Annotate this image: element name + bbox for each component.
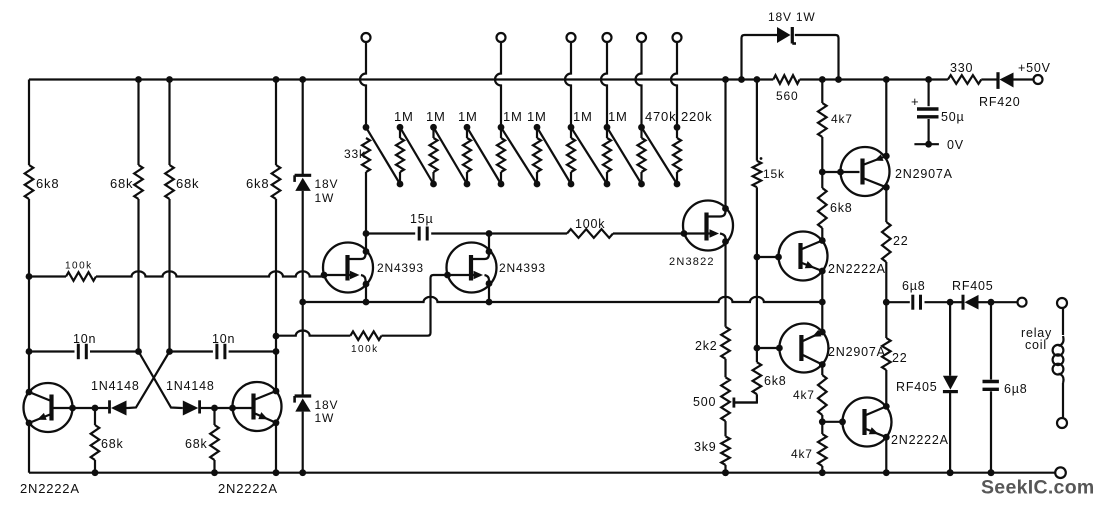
label 1M (394, 109, 414, 124)
resistor 1M ladder#5 (533, 127, 541, 184)
wire RF420-term (1014, 78, 1034, 80)
svg-text:33k: 33k (344, 147, 366, 161)
junction c1-10n (26, 348, 33, 355)
wire column4 mid (275, 336, 277, 391)
svg-text:68k: 68k (185, 437, 208, 451)
svg-text:2N2222A: 2N2222A (891, 433, 949, 447)
label 1N4148 left (91, 379, 140, 393)
label 50u (941, 110, 965, 124)
label 1M (573, 109, 593, 124)
svg-text:100k: 100k (65, 261, 93, 272)
junction top bus (135, 76, 142, 83)
junction c5-bus (299, 299, 306, 306)
junction F2 mid (486, 230, 493, 237)
resistor 1M ladder#4 (497, 127, 505, 184)
svg-text:2N4393: 2N4393 (499, 261, 546, 275)
label 2N2222A topright (828, 262, 886, 276)
junction ladder bottom #4 (498, 181, 505, 188)
wire 15k column lower (756, 257, 758, 348)
wire column5 zener1-bus (302, 191, 304, 302)
junction bottom bus (819, 469, 826, 476)
label 15u (410, 212, 434, 226)
svg-text:6µ8: 6µ8 (1004, 382, 1028, 396)
junction top bus (299, 76, 306, 83)
resistor 3k9 (721, 436, 730, 472)
junction F1 mid (363, 230, 370, 237)
wire RF405-terminal (991, 301, 1018, 303)
svg-text:100k: 100k (575, 217, 605, 231)
label 3k9 (694, 440, 717, 454)
junction top bus (722, 76, 729, 83)
label 1M (458, 109, 478, 124)
svg-text:18V: 18V (315, 177, 339, 191)
wire 15u to 100k (431, 232, 567, 234)
wire ladder diagonal #2 (400, 127, 434, 184)
svg-text:6k8: 6k8 (830, 201, 853, 215)
transistor Q6 2N2907A (776, 324, 828, 373)
junction bottom bus (988, 469, 995, 476)
svg-text:2N2907A: 2N2907A (828, 345, 886, 359)
svg-text:2N2907A: 2N2907A (895, 167, 953, 181)
svg-text:18V: 18V (315, 398, 339, 412)
junction bottom bus (211, 469, 218, 476)
speck (760, 157, 763, 160)
resistor 220k ladder#9 (673, 127, 681, 184)
label 4k7 top (831, 112, 853, 126)
svg-text:1M: 1M (573, 109, 593, 124)
capacitor 15u (419, 227, 427, 241)
junction ladder top #2 (430, 124, 437, 131)
wire ladder diagonal #1 (366, 127, 400, 184)
svg-text:1M: 1M (458, 109, 478, 124)
label 10n right (212, 332, 235, 346)
label 10n left (73, 332, 96, 346)
label 18V upper (315, 177, 339, 205)
node 0V (914, 141, 939, 148)
diode 1N4148 right (182, 400, 215, 415)
resistor 1M ladder#2 (430, 127, 438, 184)
junction ladder bottom #9 (674, 181, 681, 188)
label 1M (426, 109, 446, 124)
svg-text:15µ: 15µ (410, 212, 434, 226)
resistor 4k7 low (818, 422, 827, 473)
wire column5 upper (302, 80, 304, 176)
svg-text:4k7: 4k7 (793, 388, 815, 402)
resistor 100k bottom (350, 331, 381, 340)
wire relay top lead (1062, 308, 1064, 335)
label 100k mid (575, 217, 605, 231)
junction bottom bus (947, 469, 954, 476)
label 2N2222A left (20, 481, 80, 496)
junction ladder top #3 (464, 124, 471, 131)
capacitor 10n right (217, 344, 276, 359)
resistor 100k left (66, 272, 96, 281)
svg-text:68k: 68k (101, 437, 124, 451)
svg-text:3k9: 3k9 (694, 440, 717, 454)
junction ladder bottom #8 (638, 181, 645, 188)
svg-text:68k: 68k (176, 176, 199, 191)
resistor 470k ladder#8 (638, 127, 646, 184)
label 2N2907A mid (828, 345, 886, 359)
resistor 1M ladder#3 (463, 127, 471, 184)
zener diode 18V lower (295, 396, 312, 412)
svg-text:4k7: 4k7 (791, 447, 813, 461)
wire 18V diode loop (742, 35, 839, 80)
wire mid bus (303, 297, 823, 302)
svg-text:2N2222A: 2N2222A (828, 262, 886, 276)
svg-text:220k: 220k (681, 109, 712, 124)
terminal T6 (673, 33, 682, 42)
label 2N2222A right (218, 481, 278, 496)
wire Q2 emitter to bottom (275, 423, 277, 473)
svg-text:10n: 10n (73, 332, 96, 346)
resistor 22 lower (882, 302, 891, 406)
resistor 68k left-bias (91, 408, 100, 473)
terminal T4 (603, 33, 612, 42)
label 6u8 shunt (1004, 382, 1028, 396)
label 6k8 lower (764, 374, 787, 388)
svg-text:coil: coil (1025, 338, 1047, 352)
wire ladder diagonal #8 (607, 127, 642, 184)
label 2N3822 (669, 256, 715, 268)
svg-text:330: 330 (950, 61, 973, 75)
junction ladder bottom #3 (464, 181, 471, 188)
svg-text:2k2: 2k2 (695, 339, 718, 353)
transistor Q2 2N2222A right (215, 382, 282, 431)
transistor Q4 2N2907A (822, 147, 889, 196)
label 4k7 mid (793, 388, 815, 402)
wire ladder diagonal #3 (434, 127, 468, 184)
wire Q6 base (757, 347, 780, 349)
svg-text:2N2222A: 2N2222A (218, 481, 278, 496)
svg-text:1M: 1M (608, 109, 628, 124)
wire ladder diagonal #9 (642, 127, 678, 184)
wire 330-RF420 (981, 78, 996, 80)
label 1M (503, 109, 523, 124)
wire Q1 emitter to bottom (28, 423, 30, 473)
resistor 68k right-bias (210, 408, 219, 473)
label 68k left-bias (101, 437, 124, 451)
wire terminal T6 riser (671, 42, 677, 127)
junction top bus (819, 76, 826, 83)
label RF405 series (952, 279, 994, 293)
wire terminal T5 riser (636, 42, 642, 127)
junction base Q6 tap (754, 345, 761, 352)
resistor 33k (362, 138, 370, 172)
diode 18V 1W top (777, 27, 796, 44)
wire 6u8-RF405 (925, 299, 954, 306)
label 6k8 #1 (36, 176, 59, 191)
label 560 (776, 89, 798, 103)
wire output row (886, 301, 910, 303)
diode 1N4148 left (95, 400, 128, 415)
label RF420 (979, 95, 1021, 109)
resistor 100k mid (567, 229, 613, 238)
label 0V (947, 138, 964, 152)
junction top bus (754, 76, 761, 83)
svg-text:1M: 1M (426, 109, 446, 124)
junction c2-10n (135, 348, 142, 355)
junction CE output (883, 299, 890, 306)
svg-text:6k8: 6k8 (764, 374, 787, 388)
wire Q3 emitter to bus (821, 271, 823, 302)
label 2N2907A top (895, 167, 953, 181)
resistor 1M ladder#7 (603, 127, 611, 184)
svg-text:470k: 470k (645, 109, 676, 124)
junction base-right 68k (211, 405, 218, 412)
junction bottom bus (299, 469, 306, 476)
junction Q5 base node (819, 418, 826, 425)
svg-text:100k: 100k (351, 344, 379, 355)
junction bottom bus (722, 469, 729, 476)
label 22 lower (892, 351, 908, 365)
terminal +50V (1034, 75, 1043, 84)
terminal bottom right (1055, 467, 1066, 478)
resistor 4k7 top (818, 80, 827, 173)
svg-text:22: 22 (892, 351, 908, 365)
JFET U1 2N4393 (321, 243, 373, 293)
label 2k2 (695, 339, 718, 353)
label 4k7 low (791, 447, 813, 461)
wire relay bottom lead (1062, 383, 1064, 418)
terminal T5 (637, 33, 646, 42)
label 100k left (65, 261, 93, 272)
label 6k8 right (830, 201, 853, 215)
diode RF405 series (950, 295, 991, 310)
wire 15u lead (366, 232, 415, 234)
transistor Q1 2N2222A left (24, 383, 96, 432)
resistor 22 upper (882, 187, 891, 302)
resistor 2k2 (721, 327, 730, 378)
label 68k #1 (110, 176, 133, 191)
junction bottom bus (883, 469, 890, 476)
watermark SeekIC.com (981, 477, 1095, 499)
diode RF420 (998, 72, 1014, 89)
junction F2 bus (486, 299, 493, 306)
wire Q5 base (822, 421, 842, 423)
junction ladder top #5 (534, 124, 541, 131)
resistor 68k column2 (134, 80, 143, 352)
junction ladder top #7 (604, 124, 611, 131)
wire 50u top (927, 80, 929, 107)
junction ladder top #4 (498, 124, 505, 131)
svg-text:15k: 15k (763, 167, 785, 181)
junction 15k base tap (754, 254, 761, 261)
wire Q3 base (757, 256, 779, 258)
svg-text:1N4148: 1N4148 (91, 379, 140, 393)
resistor 330 (948, 75, 981, 84)
capacitor 50u (911, 94, 939, 117)
label 22 upper (893, 234, 909, 248)
junction top bus (738, 76, 745, 83)
svg-text:SeekIC.com: SeekIC.com (981, 477, 1095, 499)
wire JFET2 source (488, 284, 490, 303)
svg-text:68k: 68k (110, 176, 133, 191)
transistor Q5 2N2222A (839, 398, 891, 447)
svg-text:0V: 0V (947, 138, 964, 152)
junction ladder top #0 (363, 124, 370, 131)
wire 10n-left lead (29, 350, 75, 352)
wire JFET1 drain (365, 234, 367, 252)
resistor 1M ladder#1 (396, 127, 404, 184)
junction ladder top #9 (674, 124, 681, 131)
label 500 (693, 395, 716, 409)
resistor 6k8 lower (734, 348, 761, 403)
label 1M (608, 109, 628, 124)
label 6u8 series (902, 279, 926, 293)
junction 3k9 bottom (722, 469, 729, 476)
junction c4-10n (273, 348, 280, 355)
svg-text:560: 560 (776, 89, 798, 103)
label 6k8 #2 (246, 176, 269, 191)
label RF405 shunt (896, 380, 938, 394)
wire cross diagonal A (128, 352, 170, 409)
resistor 560 (773, 75, 799, 84)
wire ladder diagonal #4 (467, 127, 501, 184)
wire cross diagonal B (139, 352, 182, 409)
junction RF405 bottom (947, 469, 954, 476)
JFET U3 2N3822 (681, 201, 733, 251)
junction base-left 68k (92, 405, 99, 412)
junction c1-100k (26, 273, 33, 280)
capacitor 6u8 shunt (983, 302, 999, 473)
pot wiper (734, 398, 757, 408)
svg-text:RF405: RF405 (896, 380, 938, 394)
junction ladder top #8 (638, 124, 645, 131)
wire JFET2 gate bend (428, 275, 448, 336)
wire 10n-right lead (170, 350, 213, 352)
resistor 1M ladder#6 (567, 127, 575, 184)
label 220k (681, 109, 712, 124)
label 2N4393 #1 (377, 261, 424, 275)
label 2N2222A bottom (891, 433, 949, 447)
svg-text:2N3822: 2N3822 (669, 256, 715, 268)
junction ladder bottom #5 (534, 181, 541, 188)
svg-text:18V 1W: 18V 1W (768, 10, 816, 24)
junction F1 bus (363, 299, 370, 306)
wire 100k-bot lead (276, 331, 350, 336)
junction ladder bottom #2 (430, 181, 437, 188)
wire top supply bus (29, 78, 948, 80)
wire 100k to gate3 (613, 232, 684, 234)
svg-text:10n: 10n (212, 332, 235, 346)
terminal T1 (362, 33, 371, 42)
wire Q6 emitter to bus (821, 302, 823, 332)
junction top bus (273, 76, 280, 83)
wire 33k to 15u node (365, 172, 367, 234)
label 33k (344, 147, 366, 161)
label 470k (645, 109, 676, 124)
wire bottom bus (29, 472, 1055, 474)
label 18V lower (315, 398, 339, 425)
junction top bus (166, 76, 173, 83)
wire 2N3822 drain to top (724, 80, 726, 209)
svg-text:2N2222A: 2N2222A (20, 481, 80, 496)
svg-text:RF405: RF405 (952, 279, 994, 293)
diode RF405 shunt (943, 302, 958, 473)
junction 6u8 bottom (988, 469, 995, 476)
label 68k right-bias (185, 437, 208, 451)
resistor 6k8 column4 (272, 80, 281, 337)
wire column5 bus-zener2 (302, 302, 304, 396)
resistor 4k7 mid (818, 365, 827, 422)
label 2N4393 #2 (499, 261, 546, 275)
svg-text:22: 22 (893, 234, 909, 248)
label relay coil (1021, 326, 1052, 352)
resistor 68k column3 (165, 80, 174, 352)
svg-text:6k8: 6k8 (36, 176, 59, 191)
resistor 6k8 right (818, 172, 827, 241)
wire 100k-bot to bend (382, 335, 428, 337)
svg-text:4k7: 4k7 (831, 112, 853, 126)
label 1M (527, 109, 547, 124)
svg-text:50µ: 50µ (941, 110, 965, 124)
resistor 6k8 column1 (25, 80, 34, 277)
wire 2N3822 source down (724, 242, 726, 327)
wire ladder diagonal #7 (571, 127, 607, 184)
junction ladder bottom #1 (397, 181, 404, 188)
JFET U2 2N4393 (444, 243, 496, 293)
svg-text:6k8: 6k8 (246, 176, 269, 191)
transistor Q3 2N2222A (775, 232, 827, 281)
junction ladder bottom #6 (568, 181, 575, 188)
capacitor 6u8 series (913, 295, 921, 310)
wire Q5 emitter to bottom (885, 437, 887, 473)
label 68k #2 (176, 176, 199, 191)
label 1N4148 right (166, 379, 215, 393)
wire terminal T4 riser (601, 42, 607, 127)
junction mid bus end (819, 299, 826, 306)
wire ladder diagonal #5 (501, 127, 537, 184)
junction ladder bottom #7 (604, 181, 611, 188)
terminal T2 (497, 33, 506, 42)
svg-text:RF420: RF420 (979, 95, 1021, 109)
wire 50u bottom (927, 119, 929, 144)
svg-text:2N4393: 2N4393 (377, 261, 424, 275)
junction top bus (925, 76, 932, 83)
svg-text:500: 500 (693, 395, 716, 409)
wire column5 zener2-bot (302, 412, 304, 473)
terminal output (1018, 298, 1027, 307)
wire column1 mid (28, 277, 30, 393)
junction bottom bus (92, 469, 99, 476)
svg-text:+50V: +50V (1018, 61, 1051, 75)
terminal relay top (1057, 298, 1067, 308)
wire terminal T1 riser (360, 42, 366, 127)
potentiometer 500 (721, 377, 730, 436)
wire terminal T3 riser (565, 42, 571, 127)
junction bottom bus (273, 469, 280, 476)
label 100k bottom (351, 344, 379, 355)
svg-text:1W: 1W (315, 191, 335, 205)
wire terminal T2 riser (495, 42, 501, 127)
resistor 15k (753, 80, 762, 258)
junction out shunt (988, 299, 995, 306)
wire 100k-left to gate (96, 271, 324, 276)
junction c3-10n (166, 348, 173, 355)
wire Q4 emitter to top (885, 80, 887, 157)
label 18V 1W (768, 10, 816, 24)
wire JFET1 source (365, 284, 367, 302)
wire JFET2 drain (488, 234, 490, 252)
capacitor 10n left (78, 344, 138, 359)
junction top bus (835, 76, 842, 83)
label 330 (950, 61, 973, 75)
junction ladder top #1 (397, 124, 404, 131)
junction ladder top #6 (568, 124, 575, 131)
svg-text:1M: 1M (527, 109, 547, 124)
wire 100k-left lead (29, 275, 66, 277)
